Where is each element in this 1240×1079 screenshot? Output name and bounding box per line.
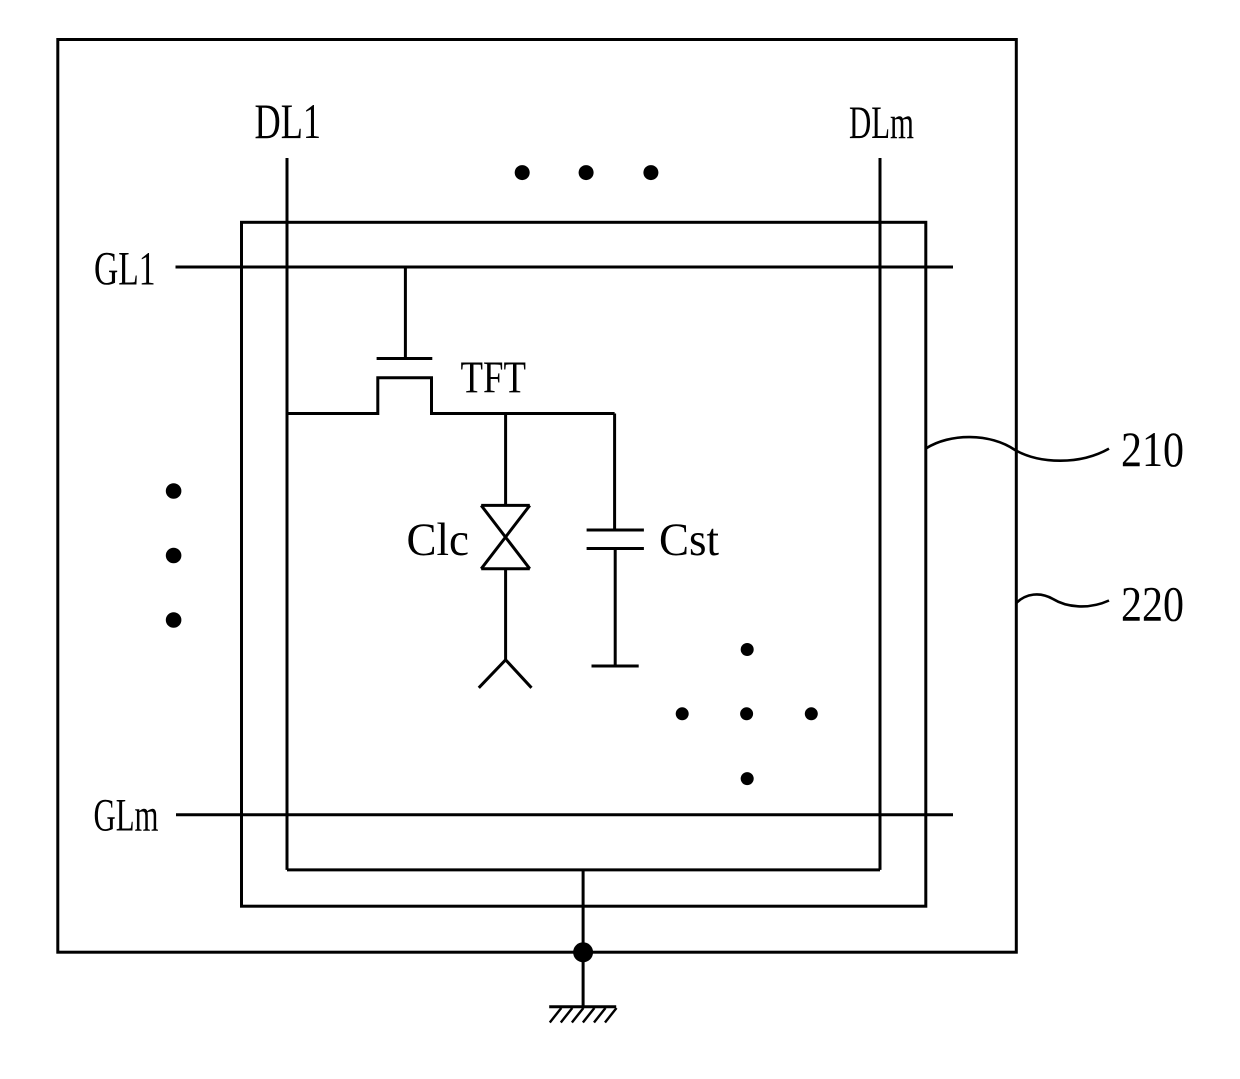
transistor TFT gate bar xyxy=(377,357,433,360)
wire: Cst lower lead xyxy=(614,549,617,667)
leader squiggle to label 210 xyxy=(926,437,1109,461)
wire: TFT gate stem from GL1 xyxy=(404,267,407,359)
lower substrate panel 220 (outer rectangle) xyxy=(58,40,1017,953)
ellipsis dots for pixel array (plus-shaped cluster) xyxy=(676,643,818,785)
svg-text:DLm: DLm xyxy=(849,97,914,149)
capacitor Cst top plate xyxy=(587,529,644,532)
common voltage terminal bar under Cst xyxy=(592,665,639,668)
svg-text:GLm: GLm xyxy=(94,790,159,842)
wire: drain branch down to capacitor Clc xyxy=(504,414,507,506)
svg-text:220: 220 xyxy=(1121,576,1184,632)
wire: common line down to panel edge xyxy=(582,870,585,952)
svg-text:Clc: Clc xyxy=(407,514,470,566)
ground symbol bar xyxy=(549,1005,616,1008)
wire: junction down to ground xyxy=(582,952,585,1007)
display area 210 (middle rectangle) xyxy=(242,222,926,906)
transistor TFT channel (source-drain hump) xyxy=(287,378,615,414)
ellipsis dots between DL1 and DLm (top row) xyxy=(515,165,659,180)
capacitor Clc crossed dielectric (bowtie) xyxy=(481,505,530,568)
data line DL1 (vertical wire) xyxy=(286,158,289,870)
wire: Clc lower lead xyxy=(504,569,507,660)
common electrode symbol (Y legs) under Clc xyxy=(479,660,532,688)
gate line GLm (horizontal wire) xyxy=(176,813,953,816)
gate line GL1 (horizontal wire) xyxy=(176,266,954,269)
ground symbol hatching xyxy=(550,1008,617,1023)
wire: common electrode line (bottom of pixel array) xyxy=(287,868,880,871)
junction node (common line to ground) xyxy=(573,942,593,962)
capacitor Clc top plate xyxy=(481,504,530,507)
capacitor Clc bottom plate xyxy=(481,567,530,570)
leader squiggle to label 220 xyxy=(1016,594,1109,606)
ellipsis dots between GL1 and GLm (left column) xyxy=(166,483,182,628)
wire: drain down to capacitor Cst xyxy=(613,414,616,531)
capacitor Cst bottom plate xyxy=(587,547,644,550)
data line DLm (vertical wire) xyxy=(879,158,882,870)
svg-text:Cst: Cst xyxy=(659,514,719,566)
svg-text:DL1: DL1 xyxy=(255,93,322,149)
svg-text:TFT: TFT xyxy=(461,353,527,403)
svg-text:GL1: GL1 xyxy=(94,243,156,296)
svg-text:210: 210 xyxy=(1121,421,1184,477)
